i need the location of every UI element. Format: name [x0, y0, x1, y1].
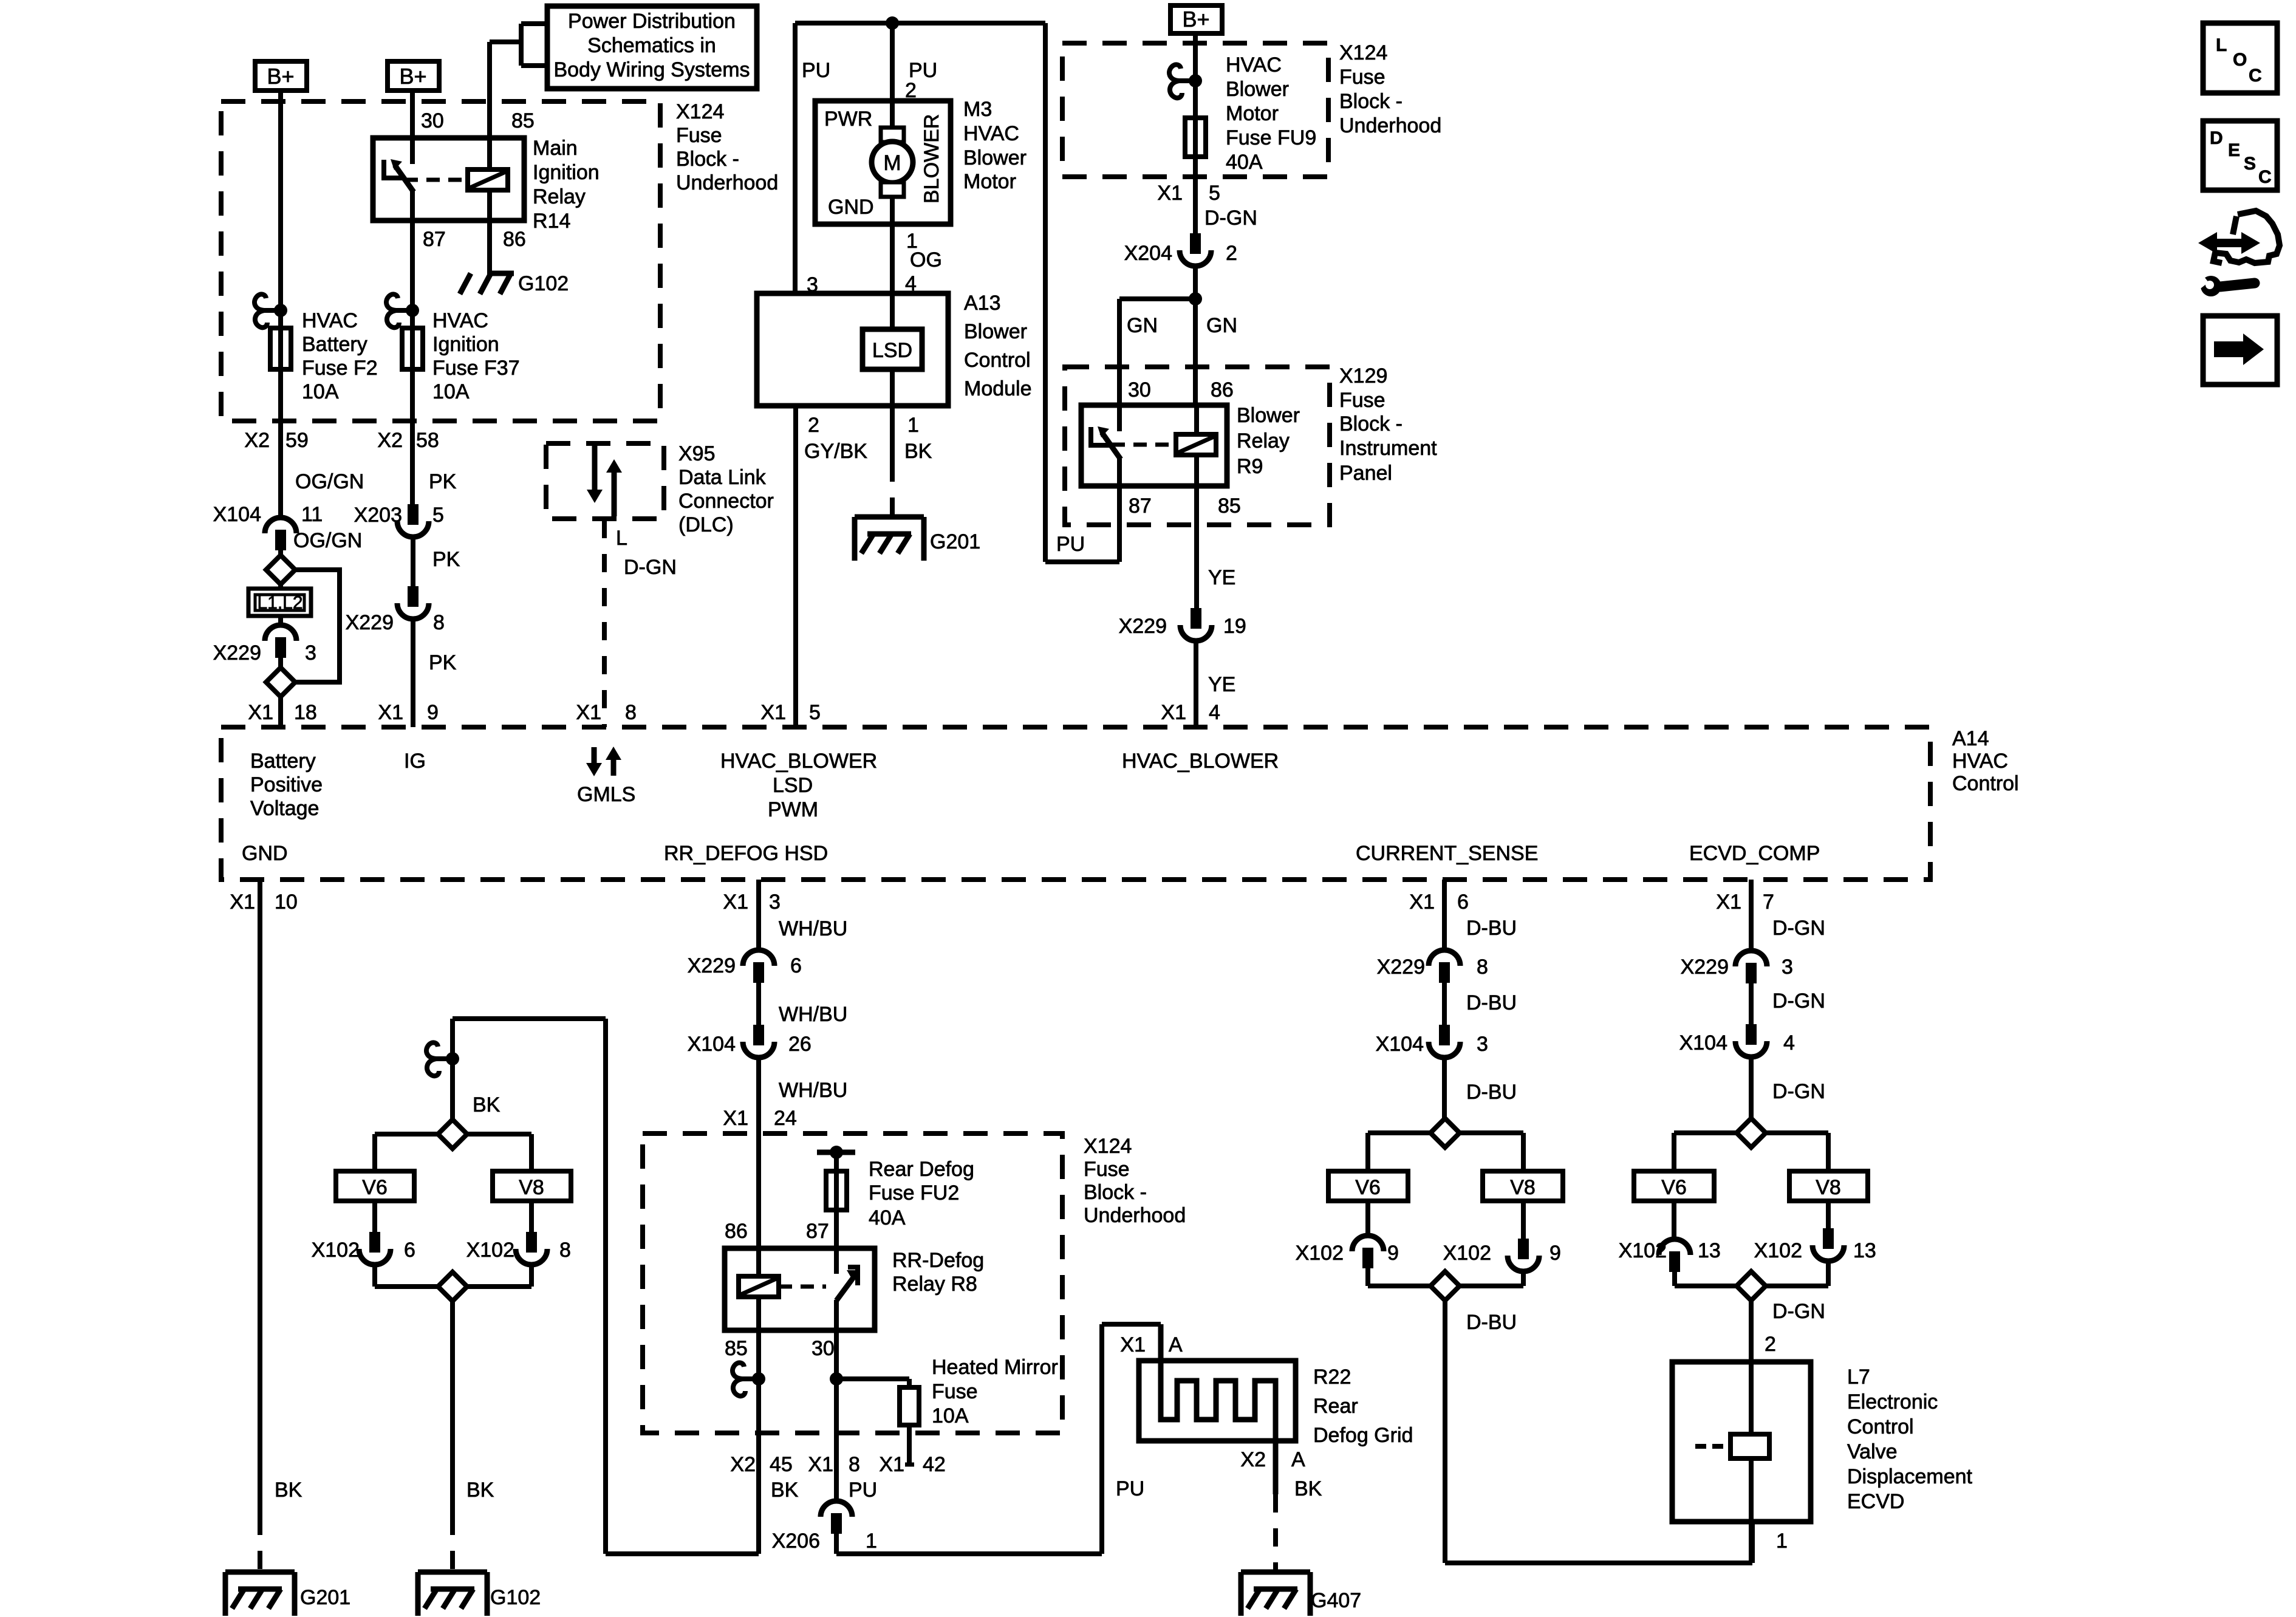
- svg-text:45: 45: [770, 1453, 793, 1476]
- svg-text:B+: B+: [399, 64, 426, 89]
- svg-text:PK: PK: [429, 470, 457, 493]
- svg-text:X229: X229: [346, 611, 394, 634]
- svg-text:D-GN: D-GN: [1772, 1080, 1825, 1103]
- svg-text:18: 18: [294, 701, 317, 724]
- svg-text:A14: A14: [1952, 727, 1989, 750]
- svg-text:D-GN: D-GN: [1204, 207, 1257, 230]
- svg-text:X2: X2: [730, 1453, 756, 1476]
- svg-text:19: 19: [1223, 615, 1246, 638]
- svg-text:RR-Defog: RR-Defog: [892, 1249, 984, 1272]
- svg-text:10A: 10A: [932, 1404, 969, 1427]
- svg-text:Module: Module: [964, 377, 1032, 400]
- svg-text:BK: BK: [466, 1479, 494, 1502]
- svg-text:YE: YE: [1208, 673, 1235, 696]
- svg-text:D-BU: D-BU: [1466, 991, 1517, 1014]
- svg-text:X1: X1: [723, 891, 748, 914]
- svg-text:G102: G102: [518, 272, 569, 295]
- svg-text:3: 3: [769, 891, 781, 914]
- svg-text:Blower: Blower: [964, 320, 1027, 343]
- svg-text:X1: X1: [879, 1453, 904, 1476]
- svg-text:X2: X2: [244, 429, 270, 452]
- svg-text:8: 8: [849, 1453, 860, 1476]
- svg-text:86: 86: [1211, 378, 1234, 402]
- svg-text:Fuse FU9: Fuse FU9: [1226, 126, 1316, 149]
- svg-text:D-GN: D-GN: [624, 556, 677, 579]
- svg-text:X229: X229: [688, 954, 736, 977]
- svg-text:Relay: Relay: [533, 185, 586, 208]
- svg-text:GND: GND: [828, 196, 874, 219]
- svg-text:26: 26: [788, 1033, 811, 1056]
- svg-text:R14: R14: [533, 210, 570, 233]
- svg-text:X102: X102: [1443, 1242, 1491, 1265]
- svg-text:X2: X2: [377, 429, 403, 452]
- svg-text:5: 5: [1209, 182, 1220, 205]
- svg-text:PWR: PWR: [824, 108, 872, 131]
- svg-text:10A: 10A: [432, 380, 470, 403]
- svg-text:Underhood: Underhood: [1339, 114, 1441, 137]
- svg-text:X1: X1: [760, 701, 786, 724]
- svg-text:Blower: Blower: [1226, 78, 1289, 101]
- svg-text:30: 30: [421, 109, 444, 132]
- svg-text:Fuse: Fuse: [932, 1380, 978, 1403]
- svg-text:HVAC_BLOWER: HVAC_BLOWER: [720, 750, 877, 773]
- svg-text:Main: Main: [533, 137, 578, 160]
- svg-text:PU: PU: [1116, 1477, 1144, 1500]
- svg-text:13: 13: [1698, 1239, 1721, 1262]
- svg-text:58: 58: [416, 429, 439, 452]
- svg-text:X229: X229: [1681, 955, 1729, 979]
- svg-text:30: 30: [1128, 378, 1151, 402]
- svg-text:Control: Control: [964, 349, 1031, 372]
- svg-text:X229: X229: [213, 641, 261, 665]
- svg-text:59: 59: [285, 429, 309, 452]
- svg-text:(DLC): (DLC): [678, 513, 734, 536]
- svg-text:X102: X102: [1296, 1242, 1344, 1265]
- svg-text:Fuse FU2: Fuse FU2: [869, 1181, 959, 1205]
- svg-text:Valve: Valve: [1847, 1440, 1898, 1463]
- svg-text:Block -: Block -: [676, 148, 739, 171]
- svg-text:PK: PK: [429, 651, 457, 674]
- svg-text:7: 7: [1763, 891, 1774, 914]
- svg-text:86: 86: [725, 1220, 748, 1243]
- svg-text:Battery: Battery: [250, 750, 316, 773]
- svg-text:OG/GN: OG/GN: [293, 529, 362, 552]
- svg-text:X1: X1: [1409, 891, 1435, 914]
- svg-text:S: S: [2244, 154, 2256, 174]
- svg-text:X1: X1: [1157, 182, 1183, 205]
- svg-text:B+: B+: [267, 64, 294, 89]
- svg-text:C: C: [2249, 66, 2262, 86]
- svg-text:D-GN: D-GN: [1772, 917, 1825, 940]
- svg-text:GY/BK: GY/BK: [804, 440, 867, 463]
- svg-text:ECVD: ECVD: [1847, 1490, 1904, 1513]
- svg-text:IG: IG: [404, 750, 426, 773]
- svg-text:Block -: Block -: [1339, 412, 1403, 436]
- svg-text:6: 6: [404, 1239, 415, 1262]
- svg-text:GN: GN: [1206, 314, 1237, 337]
- svg-text:Rear: Rear: [1313, 1395, 1358, 1418]
- svg-text:X1: X1: [248, 701, 273, 724]
- svg-text:R22: R22: [1313, 1366, 1351, 1389]
- svg-text:Underhood: Underhood: [1084, 1204, 1186, 1227]
- svg-text:Defog Grid: Defog Grid: [1313, 1424, 1413, 1447]
- svg-text:13: 13: [1853, 1239, 1876, 1262]
- svg-text:Ignition: Ignition: [533, 161, 600, 184]
- svg-text:1: 1: [866, 1530, 877, 1553]
- svg-text:Blower: Blower: [963, 146, 1027, 169]
- svg-text:3: 3: [1477, 1033, 1488, 1056]
- svg-text:PU: PU: [802, 59, 830, 82]
- svg-text:BLOWER: BLOWER: [920, 114, 943, 203]
- svg-text:9: 9: [1549, 1242, 1561, 1265]
- svg-text:5: 5: [809, 701, 821, 724]
- svg-text:Fuse F2: Fuse F2: [302, 357, 378, 380]
- svg-text:D-BU: D-BU: [1466, 1311, 1517, 1334]
- svg-text:D-BU: D-BU: [1466, 917, 1517, 940]
- svg-text:X104: X104: [688, 1033, 736, 1056]
- svg-text:PWM: PWM: [768, 798, 818, 821]
- svg-text:C: C: [2258, 167, 2272, 187]
- svg-text:A: A: [1169, 1333, 1183, 1356]
- svg-text:Heated Mirror: Heated Mirror: [932, 1356, 1058, 1379]
- svg-text:GND: GND: [242, 842, 288, 865]
- svg-text:HVAC: HVAC: [963, 122, 1019, 145]
- svg-text:X102: X102: [1754, 1239, 1802, 1262]
- svg-text:BK: BK: [771, 1479, 799, 1502]
- svg-text:WH/BU: WH/BU: [779, 1079, 847, 1102]
- svg-text:X102: X102: [312, 1239, 360, 1262]
- svg-text:Block -: Block -: [1084, 1181, 1147, 1204]
- svg-text:X104: X104: [1679, 1031, 1727, 1055]
- svg-text:YE: YE: [1208, 566, 1235, 589]
- svg-text:40A: 40A: [869, 1206, 906, 1229]
- svg-text:10A: 10A: [302, 380, 339, 403]
- svg-text:BK: BK: [1294, 1477, 1322, 1500]
- svg-text:HVAC: HVAC: [302, 309, 358, 332]
- svg-text:Battery: Battery: [302, 333, 367, 356]
- svg-text:9: 9: [1387, 1242, 1399, 1265]
- svg-text:PU: PU: [849, 1479, 877, 1502]
- svg-text:GN: GN: [1127, 314, 1158, 337]
- svg-text:LSD: LSD: [872, 339, 912, 362]
- svg-text:Voltage: Voltage: [250, 797, 319, 820]
- svg-text:Control: Control: [1952, 772, 2019, 795]
- svg-text:Schematics in: Schematics in: [587, 34, 716, 57]
- svg-text:Block -: Block -: [1339, 90, 1403, 113]
- svg-text:V8: V8: [1816, 1176, 1841, 1199]
- svg-text:O: O: [2233, 50, 2247, 70]
- svg-text:8: 8: [625, 701, 637, 724]
- svg-text:Motor: Motor: [963, 170, 1016, 193]
- svg-text:L1,L2: L1,L2: [257, 593, 302, 613]
- svg-text:Positive: Positive: [250, 773, 323, 796]
- svg-text:D: D: [2210, 128, 2223, 148]
- svg-text:6: 6: [790, 954, 802, 977]
- svg-text:V6: V6: [1661, 1176, 1687, 1199]
- svg-text:87: 87: [1129, 494, 1152, 518]
- svg-text:X229: X229: [1119, 615, 1167, 638]
- svg-text:5: 5: [432, 504, 444, 527]
- svg-text:42: 42: [923, 1453, 946, 1476]
- svg-text:G407: G407: [1311, 1589, 1361, 1612]
- svg-text:X1: X1: [1120, 1333, 1146, 1356]
- svg-text:3: 3: [305, 641, 316, 665]
- svg-text:Fuse: Fuse: [1339, 66, 1385, 89]
- svg-text:X204: X204: [1124, 242, 1172, 265]
- svg-text:2: 2: [1765, 1333, 1776, 1356]
- svg-text:Electronic: Electronic: [1847, 1390, 1938, 1414]
- svg-text:X124: X124: [1339, 41, 1387, 64]
- svg-text:Fuse F37: Fuse F37: [432, 357, 520, 380]
- svg-text:HVAC: HVAC: [1226, 53, 1282, 77]
- svg-text:M3: M3: [963, 98, 992, 121]
- svg-text:Connector: Connector: [678, 490, 774, 513]
- svg-text:Instrument: Instrument: [1339, 437, 1437, 460]
- svg-text:10: 10: [275, 891, 298, 914]
- svg-text:Displacement: Displacement: [1847, 1465, 1973, 1488]
- svg-text:X102: X102: [1619, 1239, 1667, 1262]
- svg-text:6: 6: [1457, 891, 1469, 914]
- svg-text:WH/BU: WH/BU: [779, 1003, 847, 1026]
- svg-text:X124: X124: [676, 100, 724, 123]
- svg-text:G201: G201: [300, 1586, 350, 1609]
- svg-text:A: A: [1291, 1448, 1305, 1471]
- svg-text:2: 2: [1226, 242, 1237, 265]
- svg-text:Control: Control: [1847, 1415, 1914, 1438]
- svg-text:V6: V6: [362, 1176, 388, 1199]
- svg-text:V6: V6: [1355, 1176, 1381, 1199]
- svg-text:M: M: [883, 151, 901, 175]
- svg-text:WH/BU: WH/BU: [779, 917, 847, 940]
- svg-text:G201: G201: [930, 530, 980, 553]
- svg-text:30: 30: [811, 1337, 835, 1360]
- svg-text:B+: B+: [1182, 7, 1209, 32]
- svg-text:R9: R9: [1237, 455, 1263, 478]
- svg-text:1: 1: [1776, 1530, 1788, 1553]
- svg-text:8: 8: [1477, 955, 1488, 979]
- svg-text:X129: X129: [1339, 364, 1387, 388]
- svg-text:L7: L7: [1847, 1366, 1870, 1389]
- svg-text:85: 85: [1218, 494, 1241, 518]
- svg-text:L: L: [616, 527, 627, 550]
- svg-text:X1: X1: [378, 701, 403, 724]
- svg-text:D-GN: D-GN: [1772, 1300, 1825, 1323]
- svg-text:X1: X1: [808, 1453, 833, 1476]
- svg-text:HVAC: HVAC: [432, 309, 488, 332]
- svg-text:HVAC: HVAC: [1952, 750, 2008, 773]
- svg-text:V8: V8: [519, 1176, 544, 1199]
- svg-text:GMLS: GMLS: [577, 783, 635, 806]
- svg-text:Fuse: Fuse: [1084, 1158, 1130, 1181]
- svg-text:4: 4: [1783, 1031, 1795, 1055]
- svg-text:OG/GN: OG/GN: [295, 470, 364, 493]
- svg-text:Fuse: Fuse: [1339, 389, 1385, 412]
- svg-text:ECVD_COMP: ECVD_COMP: [1689, 842, 1820, 865]
- svg-text:BK: BK: [904, 440, 932, 463]
- svg-text:40A: 40A: [1226, 151, 1263, 174]
- svg-text:Motor: Motor: [1226, 102, 1279, 125]
- svg-text:X124: X124: [1084, 1135, 1132, 1158]
- svg-text:X102: X102: [466, 1239, 514, 1262]
- svg-text:8: 8: [433, 611, 445, 634]
- svg-text:X1: X1: [576, 701, 601, 724]
- svg-text:CURRENT_SENSE: CURRENT_SENSE: [1356, 842, 1538, 865]
- svg-text:1: 1: [907, 414, 919, 437]
- svg-text:9: 9: [427, 701, 439, 724]
- svg-text:2: 2: [905, 79, 917, 102]
- svg-text:X2: X2: [1240, 1448, 1266, 1471]
- svg-text:86: 86: [503, 228, 526, 251]
- svg-text:RR_DEFOG HSD: RR_DEFOG HSD: [664, 842, 828, 865]
- svg-text:Panel: Panel: [1339, 462, 1392, 485]
- svg-text:PK: PK: [432, 548, 460, 571]
- svg-text:Blower: Blower: [1237, 404, 1300, 427]
- svg-text:3: 3: [1782, 955, 1793, 979]
- svg-text:Underhood: Underhood: [676, 171, 778, 194]
- svg-text:X206: X206: [772, 1530, 820, 1553]
- svg-text:L: L: [2216, 35, 2227, 55]
- svg-text:Relay: Relay: [1237, 429, 1290, 453]
- svg-text:8: 8: [559, 1239, 571, 1262]
- svg-text:V8: V8: [1510, 1176, 1536, 1199]
- svg-text:X229: X229: [1377, 955, 1425, 979]
- svg-text:4: 4: [905, 272, 917, 295]
- svg-text:BK: BK: [473, 1093, 501, 1116]
- svg-text:BK: BK: [275, 1479, 302, 1502]
- svg-text:Relay R8: Relay R8: [892, 1273, 977, 1296]
- svg-text:87: 87: [423, 228, 446, 251]
- svg-text:4: 4: [1209, 701, 1220, 724]
- svg-text:HVAC_BLOWER: HVAC_BLOWER: [1122, 750, 1279, 773]
- svg-text:PU: PU: [1056, 533, 1085, 556]
- svg-text:E: E: [2228, 140, 2240, 160]
- svg-text:X203: X203: [354, 504, 402, 527]
- svg-text:X1: X1: [723, 1107, 748, 1130]
- svg-text:87: 87: [806, 1220, 829, 1243]
- svg-text:A13: A13: [964, 292, 1001, 315]
- svg-text:LSD: LSD: [773, 774, 813, 797]
- svg-text:X95: X95: [678, 442, 716, 465]
- svg-text:X1: X1: [1716, 891, 1741, 914]
- svg-text:D-GN: D-GN: [1772, 990, 1825, 1013]
- svg-text:3: 3: [807, 273, 818, 296]
- svg-text:X1: X1: [1161, 701, 1186, 724]
- svg-text:Rear Defog: Rear Defog: [869, 1158, 974, 1181]
- svg-text:G102: G102: [490, 1586, 541, 1609]
- svg-text:Data Link: Data Link: [678, 466, 767, 489]
- svg-text:Ignition: Ignition: [432, 333, 499, 356]
- svg-text:Power Distribution: Power Distribution: [568, 10, 736, 33]
- svg-text:X104: X104: [1376, 1033, 1424, 1056]
- svg-text:X1: X1: [230, 891, 255, 914]
- svg-text:2: 2: [808, 414, 819, 437]
- svg-text:85: 85: [511, 109, 535, 132]
- svg-text:Body Wiring Systems: Body Wiring Systems: [553, 58, 750, 81]
- svg-text:85: 85: [725, 1337, 748, 1360]
- svg-text:OG: OG: [910, 248, 942, 272]
- svg-text:24: 24: [774, 1107, 797, 1130]
- svg-text:X104: X104: [213, 503, 261, 526]
- svg-text:D-BU: D-BU: [1466, 1081, 1517, 1104]
- svg-text:Fuse: Fuse: [676, 124, 722, 147]
- svg-text:11: 11: [301, 503, 323, 526]
